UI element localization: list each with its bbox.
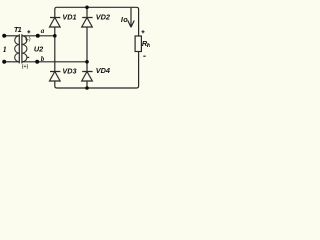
junction: bottom rail / VD4 branch [85,86,89,90]
node dot: a terminal [36,34,40,38]
wire: top rail from VD1 branch to right corner, down to resistor top [55,7,139,36]
wire: a wire from transformer to branch1 [22,35,55,37]
svg-text:(-): (-) [25,37,31,43]
minus sign at resistor bottom [143,55,145,57]
svg-text:н: н [147,40,150,49]
wire: primary bottom stub [4,61,19,63]
svg-text:VD2: VD2 [96,12,110,21]
arrow Io current [128,8,134,27]
svg-text:b: b [41,55,45,63]
plus sign at secondary top [27,30,30,33]
diode VD4 [82,72,93,82]
minus sign at secondary bottom [27,56,29,58]
wire: VD2/VD4 branch [86,7,88,88]
transformer T1 primary winding [15,36,20,62]
svg-text:(+): (+) [22,64,29,70]
node dot: primary bottom terminal [2,60,6,64]
junction: a wire to branch1 [53,34,57,38]
wire: b wire from transformer to branch2 (crosses branch1, no dot) [22,61,87,63]
diode VD2 [82,18,93,28]
svg-text:1: 1 [3,45,7,54]
resistor Rn box [135,36,141,52]
node dot: primary top terminal [2,34,6,38]
wire: VD1/VD3 branch middle (a node vertical) [54,27,56,72]
svg-text:T1: T1 [14,25,22,34]
transformer T1 core [19,34,22,63]
diode VD1 [50,18,61,28]
svg-text:U2: U2 [34,45,43,54]
svg-text:VD3: VD3 [62,67,76,76]
svg-text:VD4: VD4 [96,66,110,75]
wire: primary top stub [4,35,19,37]
plus sign at resistor top [142,30,145,33]
node dot: b terminal [35,60,39,64]
svg-text:VD1: VD1 [62,13,76,22]
junction: top rail / VD2 branch [85,6,89,10]
diode VD3 [50,72,61,82]
svg-text:a: a [41,27,45,35]
svg-text:o: o [123,15,128,24]
wire: bottom rail from VD3 branch to right corner, up to resistor bottom [55,52,139,89]
junction: b wire to branch2 [85,60,89,64]
transformer T1 secondary winding [22,36,27,62]
